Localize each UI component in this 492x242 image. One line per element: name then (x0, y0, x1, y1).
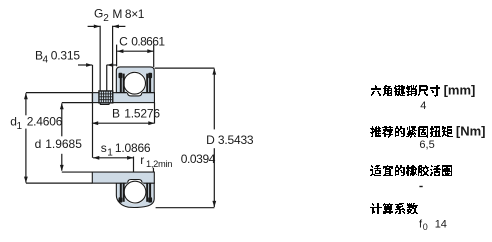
svg-text:G: G (94, 7, 103, 21)
svg-text:14: 14 (435, 219, 447, 231)
svg-text:1,2min: 1,2min (146, 159, 172, 169)
svg-text:[mm]: [mm] (444, 82, 476, 97)
svg-text:0.8661: 0.8661 (131, 34, 165, 48)
svg-text:C: C (119, 34, 128, 48)
svg-text:6,5: 6,5 (419, 139, 434, 151)
svg-text:1.5276: 1.5276 (124, 106, 160, 120)
svg-text:4: 4 (420, 100, 426, 112)
svg-text:1.0866: 1.0866 (115, 141, 151, 155)
svg-text:1: 1 (107, 147, 113, 158)
svg-text:2.4606: 2.4606 (27, 115, 63, 129)
svg-text:1: 1 (17, 121, 23, 132)
svg-text:d: d (35, 137, 42, 151)
svg-text:0.315: 0.315 (51, 49, 81, 63)
svg-text:s: s (101, 141, 107, 155)
svg-text:3.5433: 3.5433 (218, 133, 254, 147)
svg-text:D: D (206, 133, 215, 147)
svg-text:r: r (140, 153, 144, 167)
svg-text:0.0394: 0.0394 (181, 152, 216, 166)
svg-text:1.9685: 1.9685 (45, 137, 82, 151)
svg-text:4: 4 (43, 54, 49, 65)
svg-text:[Nm]: [Nm] (456, 124, 486, 139)
svg-text:2: 2 (103, 13, 109, 24)
svg-text:M 8×1: M 8×1 (112, 7, 144, 21)
svg-text:B: B (112, 106, 120, 120)
svg-text:0: 0 (423, 222, 428, 232)
